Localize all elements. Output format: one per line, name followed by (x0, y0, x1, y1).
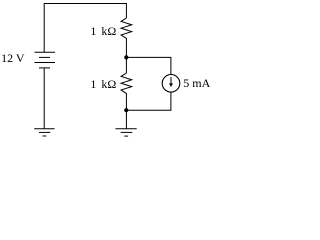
svg-text:1 kΩ: 1 kΩ (90, 77, 116, 91)
svg-text:5 mA: 5 mA (183, 76, 210, 90)
svg-text:12 V: 12 V (1, 51, 25, 65)
svg-text:1 kΩ: 1 kΩ (90, 24, 116, 38)
